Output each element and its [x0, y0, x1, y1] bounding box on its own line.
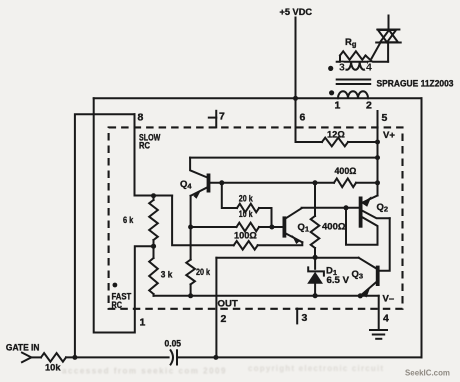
wire Q2 collector to Q3 collector [379, 218, 390, 270]
resistor 100ohm [234, 230, 258, 249]
resistor 10k (IC) [237, 209, 260, 231]
svg-text:20 k: 20 k [239, 193, 254, 204]
wire 12ohm to V+ [348, 141, 378, 143]
wire OUT rail [216, 257, 358, 259]
wire gate-in rail [31, 356, 168, 358]
wire pin 4 V- lead [378, 296, 380, 330]
svg-text:copyright electronic circuit: copyright electronic circuit [248, 364, 384, 373]
svg-text:Q2: Q2 [377, 202, 389, 214]
svg-text:SeekIC.com: SeekIC.com [405, 368, 450, 378]
pin 7 stub [209, 111, 225, 128]
svg-text:7: 7 [219, 111, 225, 123]
svg-text:accessed from seekic com 2009: accessed from seekic com 2009 [62, 367, 227, 376]
triac [372, 16, 401, 62]
resistor 10k (gate) [41, 353, 66, 373]
label OUT [218, 298, 238, 309]
transformer T1 secondary [328, 62, 388, 74]
svg-text:3: 3 [339, 62, 345, 74]
ground [370, 330, 387, 339]
svg-text:0.05: 0.05 [165, 338, 182, 348]
wire V- rail [154, 295, 379, 297]
svg-text:1: 1 [335, 100, 341, 112]
wire 20k to Q1 base node [259, 208, 272, 227]
svg-text:12Ω: 12Ω [327, 129, 345, 140]
resistor 3k [149, 246, 173, 296]
gate input terminal GATE IN [6, 343, 40, 363]
wire pin 2 OUT lead [215, 258, 217, 358]
svg-text:Q4: Q4 [180, 179, 192, 191]
resistor 12ohm [322, 129, 348, 146]
resistor 400ohm pull-up (horizontal) [334, 166, 378, 187]
svg-text:SPRAGUE 11Z2003: SPRAGUE 11Z2003 [377, 78, 454, 89]
node Q2 base [344, 205, 349, 210]
node Q4 base rail tap [219, 180, 224, 185]
wire pin8 node rail [135, 195, 173, 197]
node 20k bias bottom [188, 293, 193, 298]
node V+ 12ohm [375, 140, 380, 145]
node +5V rail junction [293, 96, 298, 101]
node fast-RC junction (6k/3k/pin1) [151, 244, 156, 249]
wire Q2 base loop [346, 208, 378, 245]
resistor 20k (IC) [237, 193, 259, 212]
wire 400ohm-load branch [314, 183, 316, 216]
wire pin8-node to 100ohm rail [172, 196, 234, 246]
pin 3 stub [297, 309, 307, 324]
svg-text:OUT: OUT [218, 298, 238, 309]
resistor Rg [340, 37, 372, 62]
wire +5V top rail [94, 97, 422, 99]
wire V+ rail to Q4 collector [190, 157, 377, 159]
label pin 6 [300, 112, 306, 124]
wire 10k to Q1 base [259, 226, 283, 228]
transformer core [337, 80, 371, 85]
node OUT rail / D1 cathode [313, 255, 318, 260]
wire 100ohm to Q1 emitter [258, 242, 303, 245]
transistor Q4 [180, 158, 209, 199]
label pin 2 [221, 313, 227, 325]
wire transformer pin2 to output rail (right edge) [421, 98, 423, 357]
svg-text:4: 4 [383, 313, 389, 325]
label pin 5 [382, 112, 388, 124]
svg-text:+5 VDC: +5 VDC [280, 7, 313, 18]
label V+ [383, 130, 395, 141]
svg-text:400Ω: 400Ω [322, 221, 346, 232]
svg-text:V+: V+ [383, 130, 395, 141]
wire Q1 collector to Q2 base [302, 207, 360, 209]
label pin 1 [140, 317, 146, 329]
wire Q4 base rail [210, 182, 334, 184]
svg-text:6.5 V: 6.5 V [327, 275, 350, 286]
svg-text:V–: V– [383, 294, 395, 305]
svg-text:2: 2 [366, 100, 372, 112]
resistor 400ohm Q1 load (vertical) [311, 216, 346, 248]
wire gate node to pin 8 [75, 114, 135, 357]
svg-text:Q3: Q3 [352, 269, 364, 281]
wire Q4 emitter drop [190, 196, 192, 227]
svg-text:4: 4 [366, 62, 372, 74]
label V- [383, 294, 395, 305]
svg-text:20 k: 20 k [196, 267, 211, 278]
svg-text:3 k: 3 k [161, 269, 173, 280]
svg-text:2: 2 [221, 313, 227, 325]
node Q3 emitter [358, 293, 363, 298]
node gate RC junction [72, 355, 77, 360]
node 6k top [151, 193, 156, 198]
label +5 VDC supply [280, 7, 313, 18]
wire pin 1 lead (fast RC to +5 rail) [94, 98, 154, 332]
wire output bottom rail [177, 356, 422, 358]
node V+ rail [375, 155, 380, 160]
wire pin 6 lead [296, 98, 323, 142]
svg-text:3: 3 [302, 312, 308, 324]
svg-text:RC: RC [139, 140, 150, 150]
svg-text:400Ω: 400Ω [335, 166, 357, 177]
node 400ohm pull-up tap [313, 180, 318, 185]
svg-text:10k: 10k [45, 363, 61, 374]
wire Q4 base tap to 20k [222, 183, 237, 208]
node V+ 400ohm [375, 180, 380, 185]
node D1 anode [313, 293, 318, 298]
IC boundary (dashed box) [109, 127, 403, 308]
wire 10k row left [191, 226, 237, 228]
svg-text:Q1: Q1 [298, 222, 310, 234]
label pin 8 [138, 112, 144, 124]
transistor Q3 [352, 258, 378, 298]
label SPRAGUE 11Z2003 [377, 78, 454, 89]
svg-text:8: 8 [138, 112, 144, 124]
label FAST RC [112, 283, 132, 310]
transistor Q1 [284, 208, 309, 244]
label SLOW RC [139, 132, 161, 150]
resistor 20k bias (vertical) [186, 227, 210, 296]
node Q1 base / 20k junction [269, 225, 274, 230]
wire 400ohm load to OUT rail [314, 248, 316, 257]
watermark [62, 364, 450, 378]
resistor 6k [123, 196, 158, 247]
svg-text:GATE IN: GATE IN [6, 343, 40, 354]
node output coupling [213, 355, 218, 360]
node Q4 emitter / 10k junction [188, 225, 193, 230]
svg-text:6: 6 [300, 112, 306, 124]
transistor Q2 [361, 196, 390, 228]
svg-text:1: 1 [140, 317, 146, 329]
capacitor 0.05 [165, 338, 182, 364]
wire +5VDC feed [295, 18, 297, 99]
transformer T1 primary [329, 90, 372, 111]
diode D1 6.5V zener [307, 257, 349, 295]
svg-text:6 k: 6 k [123, 215, 134, 226]
wire pin 5 V+ lead [377, 111, 379, 196]
svg-text:5: 5 [382, 112, 388, 124]
svg-text:Rg: Rg [345, 37, 357, 49]
label pin 4 [383, 313, 389, 325]
wire pin 8 lead [134, 114, 136, 195]
